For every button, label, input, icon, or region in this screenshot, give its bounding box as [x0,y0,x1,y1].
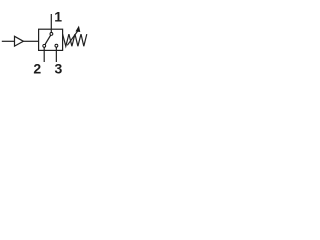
svg-text:2: 2 [33,60,41,76]
valve body box [39,29,63,50]
wire pilot to valve body [23,40,38,42]
svg-text:1: 1 [54,8,62,24]
wire contact stub left [43,46,45,51]
adjustment arrow head [76,26,81,32]
node contact circle bottom right (port 3) [55,44,59,48]
wire contact stub right [55,46,57,51]
svg-text:3: 3 [55,60,63,76]
switch blade (diagonal contact) [44,34,51,46]
node contact circle bottom left (port 2) [42,44,46,48]
node contact circle top (port 1) [50,32,54,36]
pilot triangle (pneumatic actuation) [15,36,24,46]
adjustment arrow shaft [67,31,78,45]
wire port 1 lead [50,14,52,34]
wire pilot input line [2,40,15,42]
spring (return spring zigzag) [63,34,87,46]
wire port 2 lead [43,50,45,62]
wire port 3 lead [55,50,57,62]
